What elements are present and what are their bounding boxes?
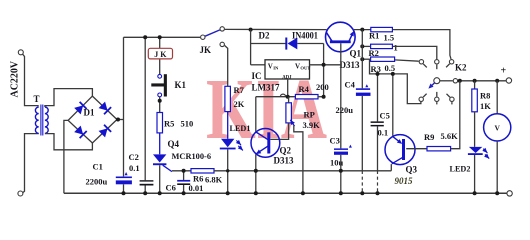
decorative watermark bbox=[206, 61, 327, 158]
wire switch lower throw to R7 bbox=[225, 46, 228, 87]
wire C1 to ground bbox=[123, 184, 125, 193]
LED LED1 bbox=[220, 124, 251, 150]
wire R3 left bbox=[362, 58, 370, 60]
svg-text:R3: R3 bbox=[371, 64, 381, 74]
wire C5 tap bbox=[377, 74, 379, 171]
rotary switch K2 bbox=[419, 60, 467, 105]
svg-text:D313: D313 bbox=[274, 156, 294, 166]
resistor R9 bbox=[424, 131, 458, 151]
wire C5 to ground dashed bbox=[377, 171, 379, 193]
svg-text:6.8K: 6.8K bbox=[205, 175, 223, 185]
junction Q2 emitter ground bbox=[254, 191, 258, 195]
resistor R5 bbox=[157, 113, 193, 133]
svg-text:RP: RP bbox=[304, 109, 315, 119]
diode D2 bbox=[259, 31, 319, 50]
svg-text:+: + bbox=[501, 66, 507, 77]
svg-text:D1: D1 bbox=[84, 108, 95, 118]
svg-text:R5: R5 bbox=[164, 119, 174, 129]
wire R2 left bbox=[362, 45, 370, 47]
svg-text:AC220V: AC220V bbox=[10, 60, 21, 97]
svg-text:K1: K1 bbox=[175, 80, 187, 90]
svg-text:R6: R6 bbox=[193, 174, 203, 184]
wire transformer secondary top to bridge bbox=[45, 89, 93, 107]
terminal AC bottom bbox=[18, 191, 23, 196]
svg-text:OUT: OUT bbox=[300, 65, 310, 70]
wire LED2 to ground bbox=[474, 155, 476, 193]
junction C4 column top bbox=[360, 28, 364, 32]
capacitor C2 bbox=[129, 152, 154, 186]
svg-text:0.1: 0.1 bbox=[378, 127, 389, 137]
voltmeter V bbox=[484, 114, 511, 141]
junction output R9 riser bbox=[458, 79, 462, 83]
wire ADJ pin bbox=[287, 79, 289, 97]
junction K1 top rail bbox=[158, 35, 162, 39]
svg-text:200: 200 bbox=[316, 82, 329, 92]
svg-text:R1: R1 bbox=[369, 30, 379, 40]
junction C2 top rail bbox=[143, 35, 147, 39]
svg-text:C4: C4 bbox=[345, 79, 356, 89]
wire C4 column bbox=[361, 30, 363, 171]
capacitor C5 bbox=[371, 111, 390, 138]
svg-text:LED1: LED1 bbox=[230, 124, 251, 133]
junction bridge positive bbox=[116, 118, 120, 122]
junction C5 top bbox=[376, 72, 380, 76]
svg-text:5.6K: 5.6K bbox=[441, 131, 459, 141]
wire D2 right lead bbox=[297, 43, 323, 45]
svg-text:R7: R7 bbox=[234, 85, 245, 95]
transistor Q1 bbox=[326, 22, 362, 70]
wire bridge positive to main rail bbox=[117, 119, 124, 121]
svg-text:IN4001: IN4001 bbox=[292, 31, 318, 41]
junction Q3 emitter top bbox=[391, 72, 395, 76]
resistor R8 bbox=[472, 89, 491, 112]
junction C2 ground bbox=[143, 191, 147, 195]
terminal output positive bbox=[501, 66, 512, 84]
wire R1 right bbox=[392, 30, 451, 59]
svg-text:C3: C3 bbox=[330, 136, 340, 146]
junction R3 left bbox=[360, 57, 364, 61]
wire Q1 emitter out bbox=[354, 29, 371, 31]
svg-text:J K: J K bbox=[154, 50, 167, 59]
junction output meter bbox=[495, 79, 499, 83]
op-amp regulator U1 LM317 bbox=[252, 60, 311, 93]
svg-text:JK: JK bbox=[200, 45, 212, 55]
wire top rail left bbox=[124, 36, 201, 38]
capacitor C3 bbox=[330, 136, 352, 168]
wire C6 tap bbox=[183, 171, 185, 193]
junction C3 ground bbox=[339, 191, 343, 195]
svg-text:220u: 220u bbox=[336, 105, 354, 115]
svg-text:IC: IC bbox=[252, 71, 262, 81]
wire R8 to LED2 bbox=[474, 112, 476, 147]
wire bridge negative to ground rail bbox=[64, 120, 68, 193]
svg-text:R9: R9 bbox=[424, 132, 434, 142]
wire K1 to R5 bbox=[159, 97, 161, 113]
svg-text:V: V bbox=[268, 62, 273, 70]
wire AC top to transformer primary bbox=[23, 54, 39, 106]
junction C1 ground bbox=[122, 191, 126, 195]
svg-text:Q4: Q4 bbox=[168, 139, 180, 149]
wire ADJ node horizontal bbox=[256, 96, 296, 98]
thyristor Q4 bbox=[153, 139, 211, 172]
transistor Q2 bbox=[251, 129, 294, 166]
svg-text:C6: C6 bbox=[166, 183, 176, 193]
junction R4 right bbox=[322, 95, 326, 99]
relay coil box JK bbox=[148, 48, 172, 59]
svg-text:0.5: 0.5 bbox=[385, 63, 396, 73]
wire R5 to Q4 bbox=[159, 133, 161, 154]
wire ground rail bbox=[64, 192, 507, 194]
wire Q2 emitter to ground bbox=[255, 154, 257, 193]
resistor R1 bbox=[369, 27, 394, 42]
wire Vin pin bbox=[251, 64, 265, 66]
wire K2 pole to output bbox=[440, 80, 453, 82]
junction LED2 ground bbox=[473, 191, 477, 195]
wire D2 to Vout node bbox=[323, 44, 325, 97]
svg-text:2K: 2K bbox=[234, 99, 245, 109]
junction C6 ground bbox=[182, 191, 186, 195]
resistor R6 bbox=[191, 169, 223, 185]
wire meter top bbox=[496, 81, 498, 114]
svg-text:C1: C1 bbox=[93, 162, 103, 172]
wire K1 branch top bbox=[159, 37, 161, 74]
junction Vin drop bbox=[249, 28, 253, 32]
wire main positive rail vertical bbox=[123, 37, 125, 176]
wire Q4 cathode to ground bbox=[159, 165, 161, 193]
svg-text:1: 1 bbox=[394, 43, 398, 53]
capacitor C6 bbox=[166, 180, 204, 193]
node AC220V label bbox=[10, 60, 21, 97]
potentiometer RP bbox=[286, 103, 320, 130]
wire R6 to Q2 emitter node bbox=[214, 170, 391, 172]
svg-text:1K: 1K bbox=[480, 101, 491, 111]
svg-text:10u: 10u bbox=[330, 157, 344, 167]
svg-text:LED2: LED2 bbox=[450, 165, 471, 174]
wire D2 left lead bbox=[251, 43, 286, 45]
wire R2 right bbox=[392, 46, 436, 59]
svg-text:510: 510 bbox=[181, 119, 194, 129]
capacitor C1 bbox=[86, 162, 132, 187]
svg-text:0.01: 0.01 bbox=[189, 183, 204, 193]
svg-text:T: T bbox=[34, 94, 40, 104]
junction C4 ground bbox=[360, 191, 364, 195]
resistor R4 bbox=[295, 82, 328, 99]
LED LED2 bbox=[450, 147, 490, 174]
wire output positive rail bbox=[458, 80, 506, 82]
wire Q1 base to C3 column bbox=[340, 43, 342, 148]
resistor R7 bbox=[225, 85, 245, 112]
capacitor C4 bbox=[336, 79, 371, 114]
svg-text:D313: D313 bbox=[340, 60, 360, 70]
resistor R3 bbox=[371, 57, 396, 74]
transformer T bbox=[34, 94, 49, 136]
svg-text:Q3: Q3 bbox=[406, 165, 418, 175]
wire R7 to LED1 bbox=[227, 112, 229, 139]
junction R2 left bbox=[360, 44, 364, 48]
wire RP bottom to Q2 base bbox=[270, 123, 288, 139]
svg-text:V: V bbox=[494, 124, 500, 133]
wire meter bottom bbox=[496, 141, 498, 193]
junction output R8 bbox=[473, 79, 477, 83]
wire Q3 base to R9 bbox=[406, 148, 427, 150]
svg-text:K2: K2 bbox=[455, 63, 467, 73]
wire R3 right bbox=[395, 60, 419, 61]
junction Q4 ground bbox=[158, 191, 162, 195]
svg-text:R8: R8 bbox=[480, 91, 490, 101]
wire Vout pin bbox=[310, 64, 341, 66]
wire Q3 collector to ground wire bbox=[390, 164, 392, 171]
svg-text:0.1: 0.1 bbox=[129, 163, 140, 173]
junction meter ground bbox=[495, 191, 499, 195]
svg-text:V: V bbox=[295, 62, 300, 70]
junction LED1 sense wire bbox=[226, 169, 229, 172]
wire switch upper throw rail bbox=[225, 28, 327, 30]
svg-text:MCR100-6: MCR100-6 bbox=[172, 152, 212, 161]
svg-text:LM317: LM317 bbox=[252, 83, 280, 93]
terminal AC top bbox=[18, 50, 23, 55]
wire RP wiper lead bbox=[294, 125, 303, 193]
svg-text:C2: C2 bbox=[129, 152, 139, 162]
svg-text:R4: R4 bbox=[299, 84, 310, 94]
svg-text:1.5: 1.5 bbox=[384, 33, 395, 43]
svg-text:3.9K: 3.9K bbox=[303, 120, 321, 130]
wire LED1 to ground bbox=[227, 149, 229, 193]
terminal output negative bbox=[507, 191, 512, 196]
junction C5 ground bbox=[376, 191, 380, 195]
junction LED1 ground bbox=[226, 191, 230, 195]
junction ADJ RP bbox=[286, 95, 290, 99]
svg-text:IN: IN bbox=[273, 65, 279, 70]
wire transformer primary bottom to AC bottom terminal bbox=[22, 134, 38, 193]
junction Q2 emitter sense wire bbox=[254, 169, 258, 173]
bridge rectifier D1 bbox=[68, 96, 117, 143]
wire R3 node drop bbox=[370, 59, 421, 103]
wire transformer secondary bottom to bridge bbox=[45, 134, 93, 150]
wire Q3 emitter tap bbox=[392, 74, 394, 136]
wire RP top bbox=[288, 97, 290, 103]
wire Vin drop bbox=[250, 30, 252, 65]
switch JK bbox=[200, 27, 225, 55]
wire R8 top bbox=[474, 81, 476, 89]
resistor R2 bbox=[369, 43, 398, 59]
wire hop on ADJ line bbox=[280, 94, 285, 97]
wire C2 branch bbox=[144, 37, 146, 193]
junction C6 top bbox=[182, 169, 186, 173]
svg-text:2200u: 2200u bbox=[86, 177, 108, 187]
junction Vout R4 bbox=[322, 63, 326, 67]
svg-text:C5: C5 bbox=[380, 111, 390, 121]
wire gate node horizontal bbox=[172, 170, 191, 172]
svg-text:9015: 9015 bbox=[395, 176, 414, 186]
relay contact K1 bbox=[151, 74, 186, 97]
junction K1 R5 bbox=[158, 99, 162, 103]
wire C3 to ground bbox=[340, 155, 342, 193]
svg-text:D2: D2 bbox=[259, 31, 270, 41]
svg-text:Q2: Q2 bbox=[280, 146, 292, 156]
wire C4 to ground dashed bbox=[361, 171, 363, 193]
junction C3 sense wire bbox=[339, 169, 343, 173]
svg-text:Q1: Q1 bbox=[350, 48, 362, 58]
junction RP wiper ground bbox=[301, 191, 305, 195]
wire R4 right bbox=[318, 96, 324, 98]
wire R9 to output rail bbox=[451, 81, 460, 149]
transistor Q3 bbox=[385, 135, 418, 186]
wire Q2 collector drop bbox=[255, 97, 257, 132]
